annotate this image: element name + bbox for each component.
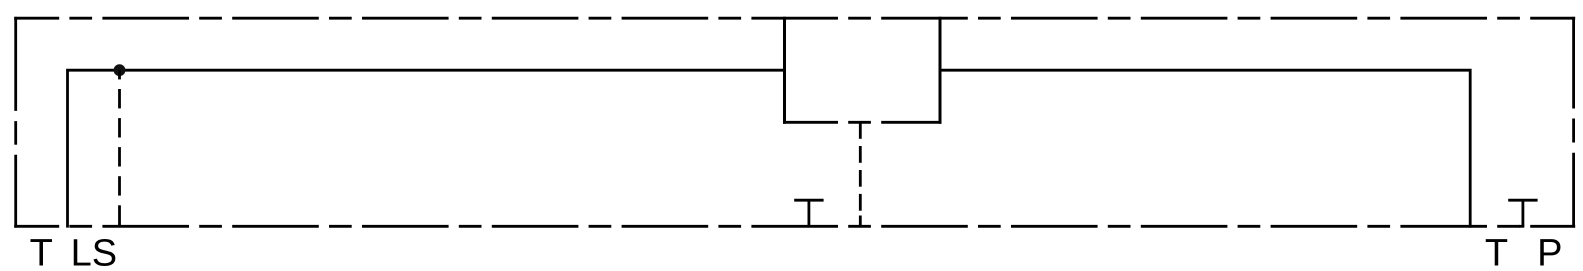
wire: main P gallery line, left riser from port T area up and across xyxy=(68,70,786,227)
wire: pilot/drain line (dashed) from cavity to tank gallery xyxy=(859,122,862,227)
wire: main gallery line right section to P port riser xyxy=(939,70,1471,227)
manifold enclosure boundary (dashed), bottom edge xyxy=(14,225,1575,228)
valve cavity box, right side wall xyxy=(939,17,942,124)
svg-text:T: T xyxy=(1485,233,1508,271)
plug symbol at P/T gallery right xyxy=(1508,200,1537,227)
wire: bottom edge dash meeting right plug stem xyxy=(1519,225,1524,228)
svg-text:LS: LS xyxy=(71,233,117,271)
svg-text:T: T xyxy=(30,233,53,271)
manifold enclosure boundary (dashed), right edge xyxy=(1572,17,1575,228)
plug symbol at centre tank gallery xyxy=(794,200,823,227)
node: LS tapping junction xyxy=(114,64,126,76)
manifold enclosure boundary (dashed), left edge xyxy=(14,17,17,228)
valve cavity box, left side wall xyxy=(783,17,786,124)
svg-text:P: P xyxy=(1537,233,1562,271)
wire: LS pilot line (dashed) down to LS port xyxy=(118,70,121,227)
valve cavity box, bottom edge (dashed through centre) xyxy=(783,121,942,124)
manifold enclosure boundary (dashed), top edge xyxy=(14,17,1575,20)
